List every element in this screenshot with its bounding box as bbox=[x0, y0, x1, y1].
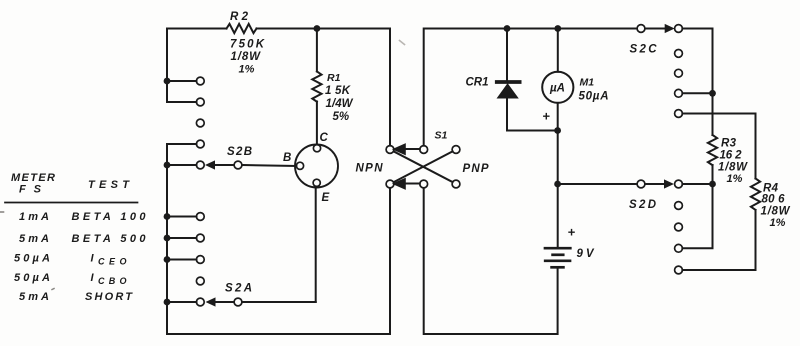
switch S1 contacts bbox=[386, 146, 460, 188]
wire: top-left rail segment (R2 to S1 stub) bbox=[257, 28, 391, 30]
wire: left rail lower segment with stubs to contacts and bottom rail to S1 bbox=[167, 144, 390, 334]
wire: top-left rail segment (left of R2) bbox=[167, 28, 227, 30]
junction node: R1 / top rail bbox=[314, 25, 321, 32]
diode CR1 cathode bar bbox=[497, 80, 520, 84]
svg-text:CBO: CBO bbox=[98, 276, 127, 286]
svg-text:1%: 1% bbox=[727, 173, 743, 185]
svg-text:1%: 1% bbox=[770, 217, 786, 229]
wire: S1 bottom-left stub to left bottom rail (already drawn) + bottom-middle stub to right bottom rail bbox=[424, 188, 558, 334]
svg-text:SHORT: SHORT bbox=[85, 291, 133, 303]
svg-text:S2D: S2D bbox=[629, 199, 656, 211]
junction node: CR1 top bbox=[504, 25, 511, 32]
table header rule bbox=[5, 202, 138, 204]
resistor R2 750K zigzag bbox=[227, 24, 257, 33]
svg-text:50µA: 50µA bbox=[14, 272, 50, 284]
diode CR1 branch wire from top rail bbox=[507, 29, 558, 131]
junction node: R3 / S2D bbox=[709, 181, 716, 188]
wire: R3 bottom through S2D junction down to contact row bbox=[682, 165, 712, 248]
switch S1 wiper arrows bbox=[394, 145, 420, 189]
svg-text:5%: 5% bbox=[333, 111, 350, 123]
wire: left rail upper segment with row1+row2 stubs bbox=[167, 29, 197, 103]
switch S2B wiper arm with arrow and wiper contact bbox=[214, 165, 296, 166]
wire: meter top to rail bbox=[557, 29, 559, 72]
svg-text:S1: S1 bbox=[435, 130, 448, 142]
svg-text:I: I bbox=[91, 253, 95, 265]
svg-text:CR1: CR1 bbox=[466, 77, 489, 89]
switch S2C wiper arm with arrow bbox=[645, 28, 666, 30]
svg-text:1/4W: 1/4W bbox=[326, 98, 354, 110]
svg-text:TEST: TEST bbox=[88, 179, 130, 191]
wire: S2D contact to R3 junction bbox=[682, 183, 712, 185]
junction node: battery top / S2D feed bbox=[554, 181, 561, 188]
svg-text:80 6: 80 6 bbox=[762, 194, 786, 206]
svg-text:R2: R2 bbox=[230, 11, 249, 23]
socket pin E bbox=[313, 179, 320, 186]
junction node: on R3 line bbox=[709, 90, 716, 97]
svg-text:16 2: 16 2 bbox=[720, 150, 743, 162]
junction node: CR1 bottom / meter line bbox=[554, 127, 561, 134]
svg-text:NPN: NPN bbox=[356, 163, 384, 175]
junction dots on left rail bbox=[164, 78, 171, 306]
svg-text:R3: R3 bbox=[721, 138, 737, 150]
wire: R1 branch from top rail to socket C pin bbox=[316, 29, 318, 145]
svg-text:50µA: 50µA bbox=[14, 253, 50, 265]
resistor R3 16.2 zigzag bbox=[708, 135, 717, 165]
resistor R1 1.5K zigzag bbox=[312, 72, 321, 102]
svg-text:1%: 1% bbox=[239, 64, 255, 76]
svg-text:CEO: CEO bbox=[98, 257, 127, 267]
svg-text:+: + bbox=[568, 225, 576, 240]
meter M1 body bbox=[542, 72, 573, 103]
svg-text:C: C bbox=[320, 132, 329, 144]
svg-text:F S: F S bbox=[19, 184, 42, 196]
wire: S1 top-left stub from top rail bbox=[389, 29, 391, 146]
svg-text:9V: 9V bbox=[577, 248, 595, 260]
svg-text:+: + bbox=[542, 109, 550, 124]
svg-text:BETA 500: BETA 500 bbox=[72, 233, 147, 245]
wire: S1 top-middle stub from right top rail corner bbox=[424, 29, 637, 146]
svg-text:R1: R1 bbox=[327, 72, 341, 84]
svg-text:1/8W: 1/8W bbox=[718, 162, 748, 174]
wire: meter bottom through CR1 junction to battery top bbox=[557, 103, 559, 247]
speckle marks from scan bbox=[400, 41, 405, 45]
socket pin B bbox=[296, 162, 303, 169]
wire: S2C column contact to R3 line bbox=[682, 92, 712, 94]
battery B1 9V plates bbox=[545, 247, 570, 250]
wire: S2C column contact to R4 top bbox=[682, 114, 755, 179]
svg-text:BETA 100: BETA 100 bbox=[72, 211, 147, 223]
switch S2D wiper arm with arrow bbox=[645, 183, 666, 185]
svg-text:E: E bbox=[322, 192, 330, 204]
svg-text:B: B bbox=[283, 152, 291, 164]
contact circles: left switch column S2B/S2A positions bbox=[196, 77, 204, 306]
wire: S2D feed from battery junction bbox=[561, 183, 637, 185]
contact circles: S2C column bbox=[675, 25, 683, 118]
wire: S2C contact to R3 top corner bbox=[682, 29, 712, 136]
svg-text:S2B: S2B bbox=[227, 146, 252, 158]
wire: E pin of socket down to S2A row bbox=[315, 187, 317, 303]
svg-text:µA: µA bbox=[549, 83, 565, 95]
transistor socket outline bbox=[295, 145, 338, 188]
svg-text:50µA: 50µA bbox=[579, 91, 609, 103]
socket pin C bbox=[313, 145, 320, 152]
svg-text:1 5K: 1 5K bbox=[325, 85, 351, 97]
svg-text:750K: 750K bbox=[230, 39, 265, 51]
svg-text:I: I bbox=[91, 272, 95, 284]
diode CR1 anode triangle bbox=[498, 84, 518, 98]
wire: R4 bottom down to contact row bbox=[682, 210, 755, 270]
resistor R4 80.6 zigzag bbox=[751, 179, 760, 210]
svg-text:PNP: PNP bbox=[463, 163, 489, 175]
svg-text:5mA: 5mA bbox=[19, 233, 49, 245]
switch S1 crossed throws (polarity reversal) bbox=[394, 151, 453, 182]
svg-text:5mA: 5mA bbox=[19, 291, 49, 303]
svg-text:1/8W: 1/8W bbox=[761, 206, 791, 218]
switch S2A wiper arm with arrow and wiper contact bbox=[215, 301, 316, 303]
contact circles: S2D column bbox=[675, 180, 683, 274]
junction node: meter top rail bbox=[554, 25, 561, 32]
svg-text:S2C: S2C bbox=[630, 44, 658, 56]
svg-text:1/8W: 1/8W bbox=[231, 51, 262, 63]
svg-text:M1: M1 bbox=[580, 77, 595, 89]
svg-text:METER: METER bbox=[11, 172, 55, 184]
svg-text:S2A: S2A bbox=[225, 283, 252, 295]
svg-text:1mA: 1mA bbox=[19, 211, 49, 223]
